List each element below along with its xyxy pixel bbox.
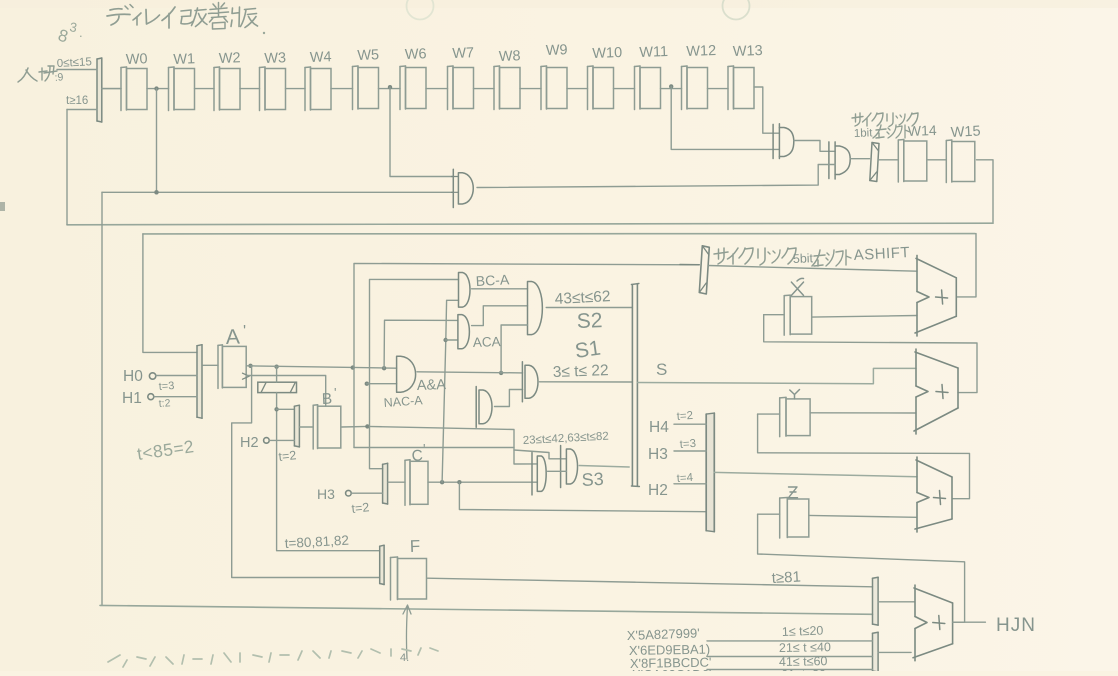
svg-text:S3: S3 <box>581 469 604 490</box>
svg-text:t=3: t=3 <box>158 380 174 393</box>
svg-text:X'CA62C1D6': X'CA62C1D6' <box>632 667 711 671</box>
svg-text:BC-A: BC-A <box>475 271 510 289</box>
svg-text:.: . <box>79 25 83 40</box>
svg-text:H2: H2 <box>648 482 668 499</box>
svg-text:W11: W11 <box>639 44 668 61</box>
svg-text:0≤t≤15: 0≤t≤15 <box>57 56 93 70</box>
svg-text:W8: W8 <box>499 48 521 65</box>
svg-text:t=2: t=2 <box>351 500 370 516</box>
svg-text:': ' <box>423 441 425 456</box>
svg-text:W1: W1 <box>173 51 195 68</box>
svg-text:W15: W15 <box>950 123 981 141</box>
svg-text:S1: S1 <box>573 337 602 363</box>
svg-text:A: A <box>225 326 240 349</box>
svg-text:W13: W13 <box>733 43 763 60</box>
svg-text:H3: H3 <box>648 446 668 463</box>
svg-text:NAC-A: NAC-A <box>383 393 423 410</box>
svg-text:HJN: HJN <box>996 615 1036 636</box>
svg-text:W14: W14 <box>908 122 938 139</box>
svg-text:41≤ t≤60: 41≤ t≤60 <box>779 654 828 669</box>
svg-text:5bit: 5bit <box>793 251 814 266</box>
svg-text:C: C <box>411 447 423 465</box>
svg-text:H1: H1 <box>122 390 142 407</box>
svg-text:t≥81: t≥81 <box>771 568 801 586</box>
svg-text:X'5A827999': X'5A827999' <box>627 625 700 643</box>
svg-text:H4: H4 <box>649 419 669 436</box>
svg-text:43≤t≤62: 43≤t≤62 <box>554 288 611 308</box>
svg-text:4.: 4. <box>400 652 409 664</box>
svg-text:t:2: t:2 <box>158 397 171 410</box>
svg-text:H0: H0 <box>123 368 143 385</box>
svg-text:H2: H2 <box>240 435 259 451</box>
svg-text:': ' <box>334 385 336 400</box>
svg-text:A&A: A&A <box>417 377 447 394</box>
svg-text:t=3: t=3 <box>679 438 696 451</box>
svg-text:1bit: 1bit <box>854 127 874 140</box>
svg-text:': ' <box>243 323 246 340</box>
svg-text::9: :9 <box>54 71 64 84</box>
svg-text:W9: W9 <box>546 42 568 59</box>
svg-text:S2: S2 <box>576 309 602 333</box>
svg-text:W5: W5 <box>357 47 379 64</box>
svg-text:S: S <box>656 360 667 379</box>
svg-text:W4: W4 <box>310 49 332 66</box>
svg-text:21≤ t ≤40: 21≤ t ≤40 <box>779 640 831 655</box>
svg-text:ACA: ACA <box>473 334 501 350</box>
svg-text:3≤ t≤ 22: 3≤ t≤ 22 <box>553 362 609 381</box>
svg-text:t=4: t=4 <box>676 472 694 485</box>
svg-text:H3: H3 <box>317 486 335 502</box>
svg-text:W6: W6 <box>405 46 427 63</box>
svg-text:W12: W12 <box>686 43 716 60</box>
svg-text:W0: W0 <box>126 51 148 68</box>
svg-text:W3: W3 <box>264 50 286 67</box>
svg-text:t≥16: t≥16 <box>66 95 88 107</box>
svg-text:ASHIFT: ASHIFT <box>853 244 910 264</box>
svg-text:W2: W2 <box>219 50 241 67</box>
svg-text:B: B <box>322 391 333 408</box>
svg-text:W7: W7 <box>452 45 474 62</box>
svg-text:1≤ t≤20: 1≤ t≤20 <box>782 624 824 639</box>
svg-text:t=2: t=2 <box>278 448 297 464</box>
svg-text:F: F <box>409 537 420 556</box>
svg-text:W10: W10 <box>592 45 622 62</box>
svg-text:t=2: t=2 <box>676 410 693 423</box>
